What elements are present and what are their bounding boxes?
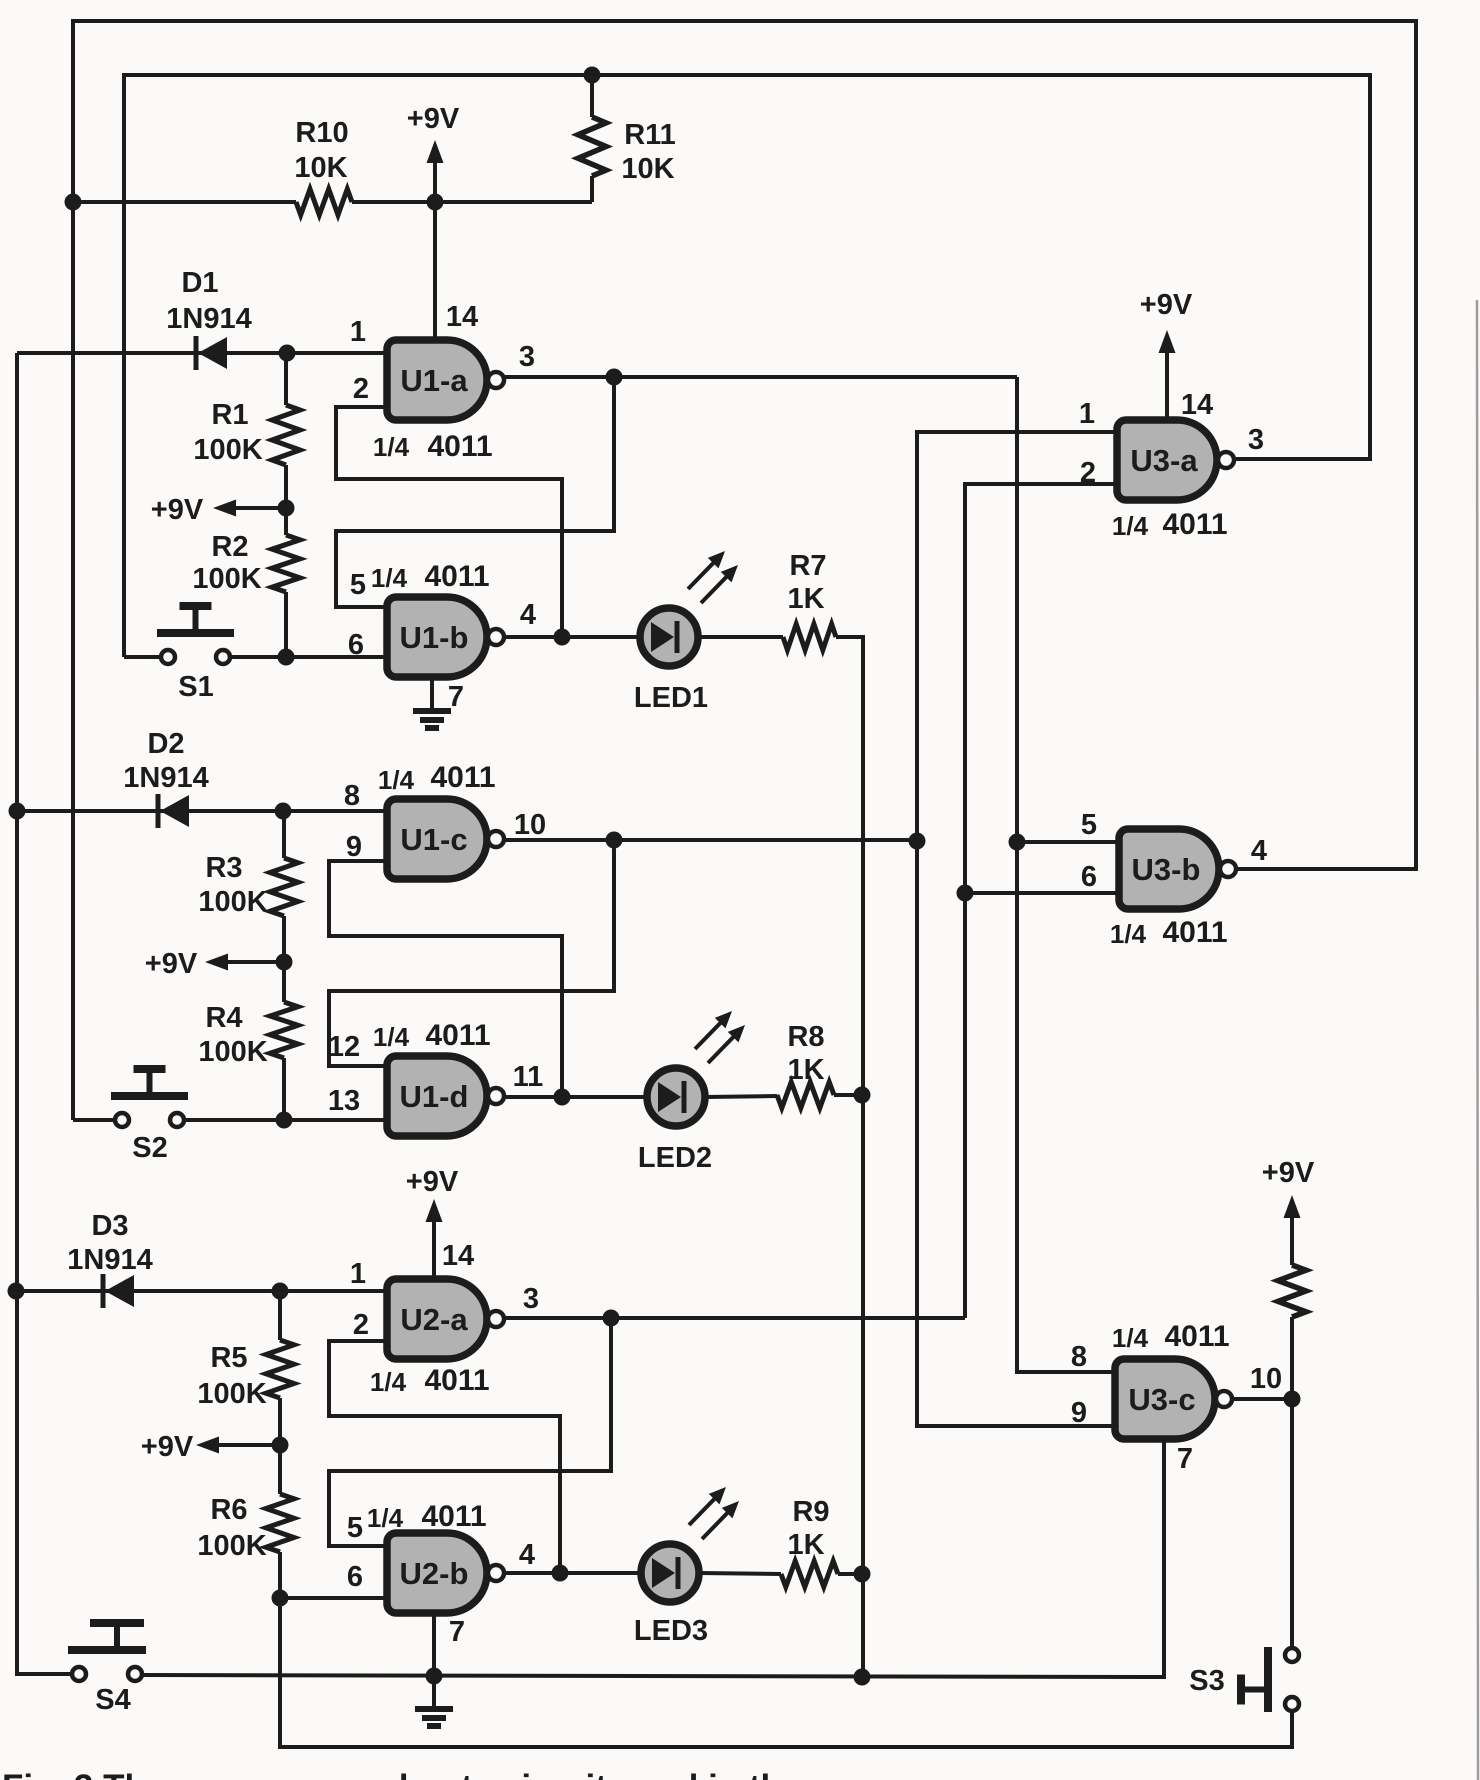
svg-text:10: 10 [1250, 1363, 1282, 1395]
node junction R1 top / pin1 [279, 345, 296, 362]
svg-text:R11: R11 [624, 119, 676, 151]
svg-text:3: 3 [523, 1283, 539, 1315]
node junction U1-a output branch [606, 369, 623, 386]
wire D1 row to U1-a pin 1 [17, 351, 387, 355]
svg-text:1/4: 1/4 [1112, 1323, 1149, 1353]
wire LED3 to R9 [699, 1573, 781, 1574]
svg-text:LED2: LED2 [638, 1142, 712, 1174]
svg-text:4011: 4011 [424, 560, 489, 593]
node junction U2-b output / pin2 loop [552, 1565, 569, 1582]
svg-text:9: 9 [346, 831, 362, 863]
wire rail x965: U3-a pin 2 down to U2-a output [965, 484, 1117, 1318]
svg-text:8: 8 [344, 780, 360, 812]
resistor R7 [783, 624, 836, 650]
svg-text:U3-c: U3-c [1128, 1382, 1195, 1417]
svg-text:U3-b: U3-b [1132, 852, 1201, 887]
svg-text:+9V: +9V [141, 1431, 194, 1463]
svg-text:4011: 4011 [1164, 1320, 1229, 1353]
node junction U2-a output branch [603, 1310, 620, 1327]
svg-text:1N914: 1N914 [123, 762, 208, 794]
wire R8 to cathode rail [834, 1093, 863, 1097]
resistor R9 [781, 1561, 838, 1587]
power +9V arrow above U3-a pin 14 [1159, 330, 1176, 421]
wire U2-a output down to U2-b pin 5 [329, 1318, 611, 1546]
svg-text:100K: 100K [198, 1036, 267, 1068]
svg-text:6: 6 [347, 1561, 363, 1593]
svg-text:+9V: +9V [1140, 289, 1193, 321]
svg-text:14: 14 [1181, 389, 1213, 421]
svg-text:4011: 4011 [421, 1500, 486, 1533]
svg-text:S2: S2 [132, 1132, 167, 1164]
svg-text:R5: R5 [210, 1342, 247, 1374]
resistor R8 [777, 1082, 834, 1108]
svg-text:D2: D2 [147, 728, 184, 760]
wire U3-c output to pull-up junction [1232, 1397, 1292, 1401]
svg-text:4011: 4011 [1162, 916, 1227, 949]
svg-text:R8: R8 [787, 1021, 824, 1053]
svg-text:100K: 100K [192, 563, 261, 595]
svg-text:1/4: 1/4 [371, 563, 408, 593]
svg-text:8: 8 [1071, 1341, 1087, 1373]
svg-text:S1: S1 [178, 671, 213, 703]
wire U1-c output to x917 rail [504, 838, 917, 842]
svg-text:100K: 100K [197, 1378, 266, 1410]
svg-text:R2: R2 [211, 531, 248, 563]
svg-text:U2-b: U2-b [400, 1556, 469, 1591]
NAND gate U1-d [387, 1056, 504, 1136]
switch S1 pushbutton [157, 602, 234, 664]
wire U3-b pin 5 stub [1017, 840, 1119, 844]
wire U1-c output down to U1-d pin 12 [329, 840, 614, 1066]
svg-text:1N914: 1N914 [67, 1244, 152, 1276]
wire rail x1017: U1-a output down to U3-c pin 8 [1017, 377, 1115, 1372]
wire R7 to cathode rail x863 [836, 637, 863, 1678]
node junction D2 anode [9, 803, 26, 820]
NAND gate U1-a [387, 340, 504, 420]
NAND gate U3-a [1117, 420, 1234, 500]
wire U3-b pin 6 stub [965, 891, 1119, 895]
node junction R6 bottom / pin 6 [272, 1590, 289, 1607]
wire R10/R11 to +9V row [73, 200, 296, 204]
ground symbol (U2-b pin 7) [415, 1709, 453, 1726]
svg-text:Fig. 3 The same crossed-gate: Fig. 3 The same crossed-gate circuit use… [2, 1768, 801, 1780]
LED LED3 [641, 1487, 739, 1602]
svg-text:4011: 4011 [427, 430, 492, 463]
node junction on outer rail at R10 row [65, 194, 82, 211]
svg-text:1/4: 1/4 [373, 1022, 410, 1052]
NAND gate U3-c [1115, 1359, 1232, 1439]
svg-text:D1: D1 [181, 267, 218, 299]
wire inner loop: U3-a output to S1 left rail (inner top border) [124, 75, 1370, 657]
node junction U3-c output / pull-up / S3 [1284, 1391, 1301, 1408]
wire U1-a output to x1017 rail [504, 375, 1017, 379]
svg-text:+9V: +9V [407, 103, 460, 135]
svg-text:4011: 4011 [424, 1364, 489, 1397]
node junction R3/R4 +9V [276, 954, 293, 971]
node junction R1/R2 +9V [278, 500, 295, 517]
svg-text:R3: R3 [205, 852, 242, 884]
svg-text:S4: S4 [95, 1684, 130, 1716]
svg-text:1/4: 1/4 [370, 1367, 407, 1397]
node junction rail x1017 / U3-b pin 5 [1009, 834, 1026, 851]
svg-text:1: 1 [350, 316, 366, 348]
wire D3 row to U2-a pin 1 [16, 1289, 387, 1293]
ground symbol (U1-b pin 7) [413, 711, 451, 728]
svg-text:3: 3 [519, 341, 535, 373]
resistor R1 [272, 353, 300, 508]
resistor R4 [270, 962, 298, 1120]
diode D2 1N914 [158, 794, 189, 828]
resistor R5 [266, 1291, 294, 1445]
svg-text:4011: 4011 [1162, 508, 1227, 541]
LED LED1 [640, 551, 738, 666]
wire D2 row to U1-c pin 8 [17, 809, 387, 813]
wire R9 to cathode rail [838, 1572, 863, 1576]
svg-text:1K: 1K [787, 583, 824, 615]
node junction D3 anode [8, 1283, 25, 1300]
svg-text:D3: D3 [91, 1210, 128, 1242]
svg-text:1: 1 [350, 1258, 366, 1290]
svg-text:+9V: +9V [406, 1166, 459, 1198]
switch S2 pushbutton [111, 1065, 188, 1127]
svg-text:100K: 100K [197, 1530, 266, 1562]
svg-text:13: 13 [328, 1085, 360, 1117]
wire U2-b pin 7 stub [432, 1613, 436, 1676]
svg-text:1/4: 1/4 [378, 765, 415, 795]
node junction rail x965 / U3-b pin 6 [957, 885, 974, 902]
svg-text:LED1: LED1 [634, 682, 708, 714]
svg-text:12: 12 [328, 1031, 360, 1063]
svg-text:2: 2 [1080, 457, 1096, 489]
svg-text:1K: 1K [787, 1054, 824, 1086]
scan artifact line right edge [1477, 300, 1478, 1780]
node junction U1-c output branch [606, 832, 623, 849]
svg-text:U3-a: U3-a [1130, 443, 1198, 478]
svg-text:4: 4 [520, 599, 536, 631]
svg-text:U2-a: U2-a [400, 1302, 468, 1337]
wire U2-b output to LED3 [504, 1571, 641, 1575]
resistor R2 [272, 508, 300, 657]
svg-text:5: 5 [347, 1512, 363, 1544]
node junction R5 top / pin 1 [272, 1283, 289, 1300]
svg-text:5: 5 [1081, 809, 1097, 841]
NAND gate U2-a [387, 1279, 504, 1359]
svg-text:1/4: 1/4 [1112, 511, 1149, 541]
resistor R3 [270, 811, 298, 962]
node junction R4 bottom / S2 / pin 13 [276, 1112, 293, 1129]
wire U1-b pin 7 stub [430, 677, 434, 711]
wire U1-a pin 14 stub [433, 202, 437, 341]
svg-text:2: 2 [353, 1309, 369, 1341]
node junction rail x917 / U1-c output [909, 833, 926, 850]
svg-text:1/4: 1/4 [1110, 919, 1147, 949]
wire U2-a output to x965 rail [504, 1316, 965, 1320]
wire U1-a pin 2 feedback from U1-b output [336, 407, 562, 637]
wire LED2 to R8 [705, 1096, 777, 1097]
wire U2-b pin 7 stub to ground [432, 1676, 436, 1707]
svg-text:R7: R7 [789, 550, 826, 582]
wire U1-a output down to U1-b pin 5 [336, 377, 614, 607]
wire bottom bus R6 to S3 [280, 1598, 1292, 1747]
wire S2 right segment to U1-d pin 13 [184, 1118, 387, 1122]
power +9V arrow bottom right [1284, 1195, 1301, 1228]
svg-text:4: 4 [1251, 835, 1267, 867]
node junction R3 top / pin 8 [275, 803, 292, 820]
svg-text:14: 14 [446, 301, 478, 333]
svg-text:5: 5 [350, 569, 366, 601]
resistor R11 (vertical, bold) [578, 75, 606, 202]
node junction +9V / pin14 [427, 194, 444, 211]
svg-text:1K: 1K [787, 1529, 824, 1561]
NAND gate U1-b [387, 597, 504, 677]
svg-text:9: 9 [1071, 1397, 1087, 1429]
power +9V tap arrow (R1/R2 junction) [213, 500, 286, 517]
wire S4/ground bus to U3-c pin 7 [142, 1439, 1164, 1677]
svg-text:10K: 10K [621, 153, 674, 185]
svg-text:4: 4 [519, 1539, 535, 1571]
svg-text:R1: R1 [211, 399, 248, 431]
node junction R8 / cathode rail [854, 1087, 871, 1104]
svg-text:14: 14 [442, 1240, 474, 1272]
diode D1 1N914 [196, 336, 227, 370]
svg-text:1N914: 1N914 [166, 303, 251, 335]
node junction R11 top on inner rail [584, 67, 601, 84]
resistor pull-up to +9V (unlabeled) [1278, 1222, 1306, 1399]
svg-text:R6: R6 [210, 1494, 247, 1526]
wire U2-a pin 2 feedback from U2-b output [329, 1341, 560, 1573]
NAND gate U3-b [1119, 829, 1236, 909]
wire U1-c pin 9 feedback from U1-d output [329, 861, 562, 1097]
node junction R2 bottom / S1 / pin 6 [278, 649, 295, 666]
svg-text:+9V: +9V [1262, 1157, 1315, 1189]
svg-text:1/4: 1/4 [373, 432, 410, 462]
node junction U1-b output / pin2 loop [554, 629, 571, 646]
svg-text:6: 6 [1081, 861, 1097, 893]
svg-text:R4: R4 [205, 1002, 242, 1034]
wire S2 left segment [73, 1118, 115, 1122]
svg-text:S3: S3 [1189, 1665, 1224, 1697]
wire U2-b pin 6 from R6 bottom [280, 1596, 387, 1600]
node junction R9 / cathode rail [854, 1566, 871, 1583]
svg-text:100K: 100K [198, 886, 267, 918]
LED LED2 [647, 1011, 745, 1126]
wire LED1 to R7 [698, 635, 783, 639]
svg-text:U1-d: U1-d [400, 1079, 469, 1114]
diode D3 1N914 [103, 1274, 134, 1308]
svg-text:7: 7 [449, 1616, 465, 1648]
wire S1 left segment [124, 655, 161, 659]
power +9V arrow above U1-a pin 14 [427, 140, 444, 202]
wire rail x917: U3-a pin 1 down to U3-c pin 9 [917, 432, 1117, 1426]
wire U1-b output to LED1 [504, 635, 640, 639]
svg-text:R10: R10 [295, 117, 348, 149]
NAND gate U2-b [387, 1533, 504, 1613]
node junction pin7/ground (U2-b) [426, 1668, 443, 1685]
svg-text:U1-b: U1-b [400, 620, 469, 655]
svg-text:4011: 4011 [425, 1019, 490, 1052]
svg-text:4011: 4011 [430, 761, 495, 794]
svg-text:100K: 100K [193, 434, 262, 466]
svg-text:2: 2 [353, 373, 369, 405]
switch S4 pushbutton [68, 1619, 146, 1681]
wire S1 right segment to U1-b pin 6 [230, 655, 387, 659]
power +9V tap arrow (R5/R6 junction) [196, 1437, 280, 1454]
svg-text:+9V: +9V [151, 494, 204, 526]
svg-text:7: 7 [1177, 1443, 1193, 1475]
switch S3 pushbutton (vertical) [1237, 1647, 1299, 1712]
wire outer loop: U3-b output to S2 left rail (top outer border) [73, 21, 1416, 1120]
svg-text:11: 11 [513, 1061, 544, 1093]
NAND gate U1-c [387, 799, 504, 879]
resistor R6 [266, 1445, 294, 1598]
svg-text:R9: R9 [792, 1496, 829, 1528]
wire S4 left segment [17, 1672, 72, 1676]
node junction R5/R6 +9V [272, 1437, 289, 1454]
svg-text:+9V: +9V [145, 948, 198, 980]
svg-text:1/4: 1/4 [367, 1503, 404, 1533]
svg-text:1: 1 [1079, 398, 1095, 430]
svg-text:10K: 10K [294, 152, 347, 184]
resistor R10 [296, 189, 592, 215]
svg-text:6: 6 [348, 629, 364, 661]
svg-text:LED3: LED3 [634, 1615, 708, 1647]
svg-text:U1-a: U1-a [400, 363, 468, 398]
power +9V arrow above U2-a pin 14 [426, 1199, 443, 1279]
wire S3 top contact to output rail [1290, 1399, 1294, 1648]
node junction U1-d output / pin9 loop [554, 1089, 571, 1106]
power +9V tap arrow (R3/R4 junction) [205, 954, 284, 971]
wire U1-d output to LED2 [504, 1095, 646, 1099]
node junction cathode rail / ground bus [854, 1669, 871, 1686]
svg-text:10: 10 [514, 809, 546, 841]
svg-text:U1-c: U1-c [400, 822, 467, 857]
svg-text:3: 3 [1248, 424, 1264, 456]
wire diode anode rail (D1-D2-D3-S4 left) [17, 353, 72, 1674]
